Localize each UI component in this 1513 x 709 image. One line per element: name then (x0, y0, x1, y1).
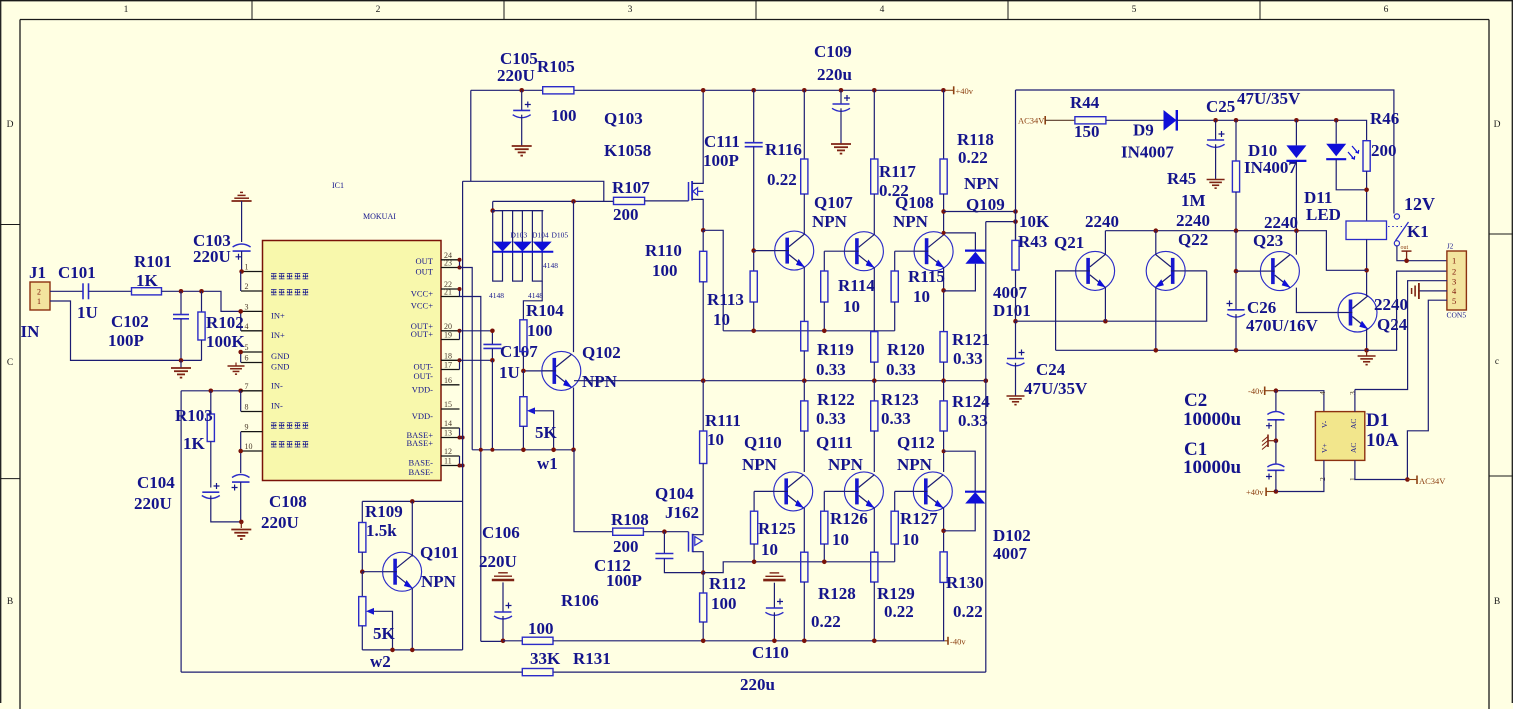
junction D10 Q23 collector (1294, 228, 1299, 233)
resistor R124 (943, 381, 945, 401)
svg-text:17: 17 (444, 361, 452, 370)
svg-text:4: 4 (245, 322, 249, 331)
bridge D1 body (1315, 412, 1364, 461)
resistor R127 (891, 511, 898, 544)
wire diode rail corner (492, 201, 494, 210)
diode D9 (1164, 110, 1177, 131)
svg-text:21: 21 (444, 288, 452, 297)
svg-text:C: C (7, 358, 13, 368)
w1 wiper arrow (527, 407, 535, 414)
wire R118 rail drop (943, 90, 945, 159)
svg-text:J2: J2 (1447, 243, 1454, 251)
svg-text:+40v: +40v (1246, 487, 1264, 497)
wire Q111 base (824, 490, 844, 492)
junction C109 rail (839, 88, 844, 93)
resistor R130 (940, 552, 947, 583)
svg-text:5: 5 (245, 343, 249, 352)
svg-text:VDD-: VDD- (412, 385, 433, 395)
wire C101 to R101 (89, 290, 132, 292)
svg-text:c: c (1495, 357, 1499, 367)
svg-text:R108: R108 (611, 510, 649, 529)
svg-text:Q103: Q103 (604, 109, 643, 128)
IC1 right pin 22 (441, 288, 460, 290)
transistor Q108 (844, 232, 883, 271)
junction w1 bus C107line (490, 448, 494, 452)
wire Q23 emitter to Q24 base (1296, 288, 1338, 313)
IC1 right pin 19 (441, 339, 460, 341)
IC1 pin label dianyuan- 9 (271, 423, 277, 428)
svg-text:C25: C25 (1206, 97, 1235, 116)
junction input ground (179, 358, 184, 363)
svg-text:19: 19 (444, 331, 452, 340)
svg-text:13: 13 (444, 429, 452, 438)
junction R112 top (701, 570, 706, 575)
wire Q21 base (1056, 271, 1076, 350)
svg-text:C2: C2 (1184, 390, 1207, 411)
svg-text:AC: AC (1349, 443, 1358, 453)
svg-text:9: 9 (245, 423, 249, 432)
IC1 right pin 18 (441, 359, 460, 361)
svg-text:0.22: 0.22 (958, 148, 988, 167)
svg-text:+40v: +40v (956, 86, 974, 96)
svg-text:18: 18 (444, 351, 452, 360)
wire Q23 base link (1236, 270, 1260, 272)
wire R108 feed (574, 450, 613, 532)
svg-text:D: D (1494, 120, 1501, 130)
svg-text:5K: 5K (535, 423, 558, 442)
svg-text:100: 100 (551, 106, 577, 125)
svg-text:R101: R101 (134, 252, 172, 271)
capacitor C111 (753, 90, 755, 142)
junction Q102 base node (521, 369, 526, 374)
wire Q107 emitter to R119 (803, 267, 805, 321)
resistor R116 (801, 159, 808, 194)
svg-text:R127: R127 (900, 509, 938, 528)
junction relay Q24 collector (1364, 268, 1369, 273)
svg-text:C104: C104 (137, 473, 175, 492)
wire V2 bottom corner (481, 640, 503, 642)
IC1 left pin 8 (241, 411, 263, 413)
wire Q107 base (754, 250, 775, 252)
svg-text:23: 23 (444, 259, 452, 268)
svg-text:33K: 33K (530, 649, 561, 668)
capacitor C101 (82, 283, 84, 299)
svg-text:R121: R121 (952, 330, 990, 349)
svg-text:0.22: 0.22 (884, 602, 914, 621)
junction w1 bus V2 (479, 448, 483, 452)
svg-text:C26: C26 (1247, 298, 1276, 317)
resistor R112 (702, 573, 704, 593)
svg-text:D102: D102 (993, 526, 1031, 545)
capacitor C26 (1235, 309, 1237, 311)
svg-text:16: 16 (444, 376, 452, 385)
wire protection box left edge (1015, 90, 1017, 240)
svg-text:Q21: Q21 (1054, 233, 1084, 252)
wire Q108 collector (873, 194, 875, 235)
junction C111 rail (751, 88, 756, 93)
svg-text:D101: D101 (993, 301, 1031, 320)
resistor R102 (201, 291, 203, 312)
wire bracket pins20-19 OUT+ (459, 331, 461, 340)
junction R128 bus (802, 639, 807, 644)
diode D105 (532, 211, 542, 282)
junction w1 bus pot (521, 448, 526, 453)
svg-text:1K: 1K (136, 271, 159, 290)
svg-text:1M: 1M (1181, 191, 1206, 210)
svg-text:10: 10 (902, 530, 919, 549)
junction BASE+ (461, 436, 465, 440)
junction Q102 collector (571, 199, 576, 204)
svg-text:B: B (7, 597, 13, 607)
wire Q109 base (895, 250, 914, 252)
svg-text:R112: R112 (709, 574, 746, 593)
IC1 pin label dianyuan- 10 (271, 442, 277, 447)
svg-text:R43: R43 (1018, 232, 1047, 251)
svg-text:4: 4 (880, 5, 885, 15)
svg-text:IN+: IN+ (271, 311, 285, 321)
resistor R128 (801, 552, 808, 582)
svg-text:C102: C102 (111, 312, 149, 331)
svg-text:OUT: OUT (416, 267, 434, 277)
resistor R46 (1363, 141, 1370, 172)
svg-text:CON5: CON5 (1447, 311, 1467, 320)
transistor Q103 MOSFET (688, 182, 690, 201)
svg-text:V-: V- (1320, 420, 1329, 428)
svg-text:2240: 2240 (1264, 213, 1298, 232)
svg-text:Q107: Q107 (814, 193, 853, 212)
wire Q22 collector (1155, 231, 1157, 255)
svg-text:AC: AC (1349, 419, 1358, 429)
svg-text:R113: R113 (707, 290, 744, 309)
junction vbe2 R125 (752, 560, 757, 565)
resistor R119 (801, 321, 808, 351)
junction C107 bottom (490, 358, 495, 363)
svg-text:200: 200 (613, 205, 639, 224)
power AC34V marker right (1416, 476, 1418, 485)
svg-text:12: 12 (444, 447, 452, 456)
junction Q21 emitter node (1103, 319, 1108, 324)
resistor R115 (891, 271, 898, 302)
wire J1 pin1 to ground bus (50, 301, 202, 360)
transistor Q110 (774, 472, 813, 511)
wire R109 top rail (362, 500, 462, 502)
junction D101 top (942, 231, 946, 235)
junction D10 top (1294, 118, 1299, 123)
svg-text:47U/35V: 47U/35V (1237, 89, 1301, 108)
svg-text:220U: 220U (479, 552, 517, 571)
capacitor C25 (1215, 120, 1217, 140)
wire R104 to Q102 base (523, 352, 555, 371)
svg-text:14: 14 (444, 419, 452, 428)
svg-text:OUT-: OUT- (413, 371, 433, 381)
IC1 right pin 12 (441, 455, 460, 457)
wire Q111 emitter (873, 508, 875, 552)
wire Q110 emitter (803, 508, 805, 552)
svg-text:3: 3 (245, 302, 249, 311)
wire Q101 emitter (411, 588, 413, 650)
svg-text:LED: LED (1306, 205, 1341, 224)
svg-text:NPN: NPN (812, 212, 848, 231)
svg-text:2240: 2240 (1176, 211, 1210, 230)
wire C107 line down to w1 bus (491, 360, 493, 450)
junction diode row left (490, 208, 495, 213)
transistor Q24 (1338, 293, 1377, 332)
IC1 right pin 14 (441, 427, 460, 429)
capacitor C105 (521, 90, 523, 110)
transistor Q23 (1260, 252, 1299, 291)
junction vbe R113 (751, 329, 756, 334)
junction AC34V (1405, 477, 1410, 482)
svg-text:IN+: IN+ (271, 330, 285, 340)
wire Q108 base (824, 250, 844, 252)
svg-text:3: 3 (1452, 277, 1456, 287)
svg-text:R115: R115 (908, 267, 945, 286)
junction D11 top (1334, 118, 1339, 123)
svg-text:NPN: NPN (742, 455, 778, 474)
svg-text:100P: 100P (108, 331, 144, 350)
svg-text:R107: R107 (612, 178, 650, 197)
svg-text:IN: IN (21, 322, 41, 341)
svg-text:C110: C110 (752, 643, 789, 662)
svg-text:C106: C106 (482, 523, 520, 542)
transistor Q104 MOSFET (688, 532, 690, 552)
svg-text:R123: R123 (881, 390, 919, 409)
svg-text:R122: R122 (817, 390, 855, 409)
svg-text:R116: R116 (765, 140, 802, 159)
svg-text:R110: R110 (645, 241, 682, 260)
wire R125 bottom (753, 544, 755, 562)
wire feedback left vertical (180, 391, 182, 672)
svg-text:2: 2 (376, 5, 381, 15)
svg-text:V+: V+ (1320, 443, 1329, 453)
wire Q23 base drop (1235, 231, 1237, 310)
svg-text:200: 200 (613, 537, 639, 556)
resistor R123 (873, 381, 875, 401)
junction Q22 collector (1154, 228, 1159, 233)
svg-text:D105: D105 (552, 231, 569, 240)
svg-text:1U: 1U (499, 363, 520, 382)
wire base to Q101 (362, 571, 382, 573)
junction Q23 base (1234, 269, 1239, 274)
junction Q103 drain rail (701, 88, 706, 93)
resistor R44 (1075, 117, 1106, 124)
svg-text:NPN: NPN (828, 455, 864, 474)
svg-text:IN-: IN- (271, 401, 283, 411)
svg-text:w2: w2 (370, 652, 391, 671)
junction C108 ground (239, 520, 244, 525)
resistor R113 (750, 271, 757, 302)
junction C112 top (662, 529, 667, 534)
resistor R111 (702, 381, 704, 431)
svg-text:VDD-: VDD- (412, 411, 433, 421)
wire output bus (574, 380, 986, 382)
wire R46 bottom node (1366, 171, 1368, 221)
junction vbe R114 (822, 329, 827, 334)
wire feedback right vertical (985, 222, 987, 672)
svg-text:0.22: 0.22 (811, 612, 841, 631)
wire Q108 emitter (873, 268, 875, 332)
svg-text:2: 2 (1452, 267, 1456, 277)
svg-text:2: 2 (37, 288, 41, 297)
svg-text:R44: R44 (1070, 93, 1100, 112)
junction R103 top (209, 389, 214, 394)
svg-text:IN4007: IN4007 (1244, 158, 1297, 177)
svg-text:100K: 100K (206, 332, 246, 351)
resistor R120 (873, 331, 875, 333)
wire R115 bottom (894, 302, 896, 331)
svg-text:4148: 4148 (543, 261, 558, 270)
junction pin11 (458, 464, 462, 468)
svg-text:100: 100 (711, 594, 737, 613)
IC1 right pin 21 (441, 296, 460, 298)
wire J2 pin2 to gnd bus (1367, 271, 1447, 350)
svg-text:10: 10 (713, 310, 730, 329)
svg-text:0.22: 0.22 (767, 170, 797, 189)
wire Q109 collector (943, 194, 945, 235)
ground relay circuit (1366, 350, 1368, 356)
junction R43 node321 (1013, 319, 1018, 324)
wire bracket pins1-2 (240, 272, 242, 292)
svg-text:1.5k: 1.5k (366, 521, 397, 540)
resistor R109 (361, 501, 363, 522)
IC1 pin label dianyuan+ 2 (271, 290, 277, 295)
svg-text:10: 10 (843, 297, 860, 316)
svg-text:220U: 220U (261, 513, 299, 532)
resistor R121 (940, 332, 947, 363)
svg-text:R118: R118 (957, 130, 994, 149)
resistor R104 (520, 320, 527, 352)
resistor R106 (522, 637, 553, 644)
wire J2 pin5 to AC (1407, 300, 1447, 479)
svg-text:4007: 4007 (993, 544, 1028, 563)
svg-text:NPN: NPN (897, 455, 933, 474)
IC1 right pin 24 (441, 259, 460, 261)
wire bracket pins22-21 VCC+ (459, 289, 461, 297)
wire Q21 emitter (1104, 287, 1106, 321)
junction C110 bus (772, 639, 777, 644)
power -40v marker bus (947, 637, 949, 645)
IC1 left pin 9 (241, 431, 263, 433)
wire bracket pins7-8 (240, 391, 242, 412)
junction pin18 (458, 358, 462, 362)
wire OUT pins to w1 bus (460, 268, 473, 450)
junction w1 bus emitter (571, 448, 576, 453)
svg-text:12V: 12V (1404, 194, 1435, 214)
resistor R126 (821, 511, 828, 544)
junction w1 bus wiper (551, 448, 556, 453)
IC1 right pin 16 (441, 384, 460, 386)
wire collector line y231 (1105, 231, 1366, 271)
wire Q102 collector vertical (573, 201, 575, 352)
potentiometer w1 5K (522, 371, 524, 397)
IC1 left pin 4 (241, 330, 263, 332)
svg-text:0.33: 0.33 (953, 349, 983, 368)
wire bridge pin3 up (1354, 390, 1356, 412)
connector J2 (1447, 251, 1467, 310)
wire Q22 base (1186, 270, 1207, 272)
svg-text:C101: C101 (58, 263, 96, 282)
svg-text:R109: R109 (365, 502, 403, 521)
transistor Q111 (844, 472, 883, 511)
op-amp module IC1 body (263, 241, 442, 481)
capacitor C108 (240, 451, 242, 473)
svg-text:R106: R106 (561, 591, 599, 610)
svg-text:100: 100 (528, 619, 554, 638)
svg-text:-40v: -40v (950, 637, 966, 647)
junction Q109 emitter D101 (941, 288, 946, 293)
svg-text:R104: R104 (526, 301, 564, 320)
svg-text:AC34V: AC34V (1419, 476, 1446, 486)
IC1 right pin 13 (441, 437, 460, 439)
junction C25 (1213, 118, 1218, 123)
svg-text:GND: GND (271, 361, 289, 371)
node input dot at C102 (179, 289, 184, 294)
svg-text:2240: 2240 (1085, 212, 1119, 231)
svg-text:6: 6 (1384, 5, 1389, 15)
junction bus feedback (984, 378, 989, 383)
svg-text:2: 2 (245, 282, 249, 291)
svg-text:10: 10 (245, 442, 253, 451)
wire Q109 emitter (943, 268, 945, 332)
IC1 left pin 7 (241, 390, 263, 392)
junction R116 rail (802, 88, 807, 93)
svg-text:Q101: Q101 (420, 543, 459, 562)
potentiometer w2 5K (361, 572, 363, 597)
wire switch to J2 pin1 (1397, 246, 1447, 261)
wire BASE+ to vertical (460, 437, 463, 439)
svg-text:VCC+: VCC+ (411, 300, 433, 310)
svg-text:R102: R102 (206, 313, 244, 332)
wire R127 bottom (894, 544, 896, 562)
junction bus R120 (872, 378, 877, 383)
junction pin5 (238, 350, 243, 355)
svg-text:100: 100 (652, 261, 678, 280)
ground C104/C108 (240, 522, 242, 528)
wire Q112 emitter (943, 508, 945, 552)
junction C1 bottom (1274, 489, 1279, 494)
wire R117 rail drop (873, 90, 875, 159)
junction out port (1404, 258, 1409, 263)
wire OUT+ to C107 line (460, 330, 493, 332)
wire VAS horizontal (493, 200, 614, 202)
svg-text:4: 4 (1318, 391, 1327, 395)
svg-text:R125: R125 (758, 519, 796, 538)
wire gnd bus y350 (1056, 349, 1367, 351)
wire bracket pins5-6 (240, 352, 242, 363)
sheet border frame (0, 0, 1513, 2)
junction R129 bus (872, 639, 877, 644)
junction bus R121 (941, 378, 946, 383)
svg-text:3: 3 (628, 5, 633, 15)
wire bracket pins18-17 OUT- (459, 360, 461, 369)
junction R112 bus (701, 639, 706, 644)
capacitor C109 (840, 90, 842, 104)
svg-text:Q102: Q102 (582, 343, 621, 362)
wire node321 (1016, 271, 1207, 321)
wire source jog to vbe line (703, 230, 723, 330)
junction vbe2 R126 (822, 560, 827, 565)
svg-text:D104: D104 (532, 231, 549, 240)
junction rail end (941, 88, 946, 93)
svg-text:1: 1 (245, 263, 249, 272)
svg-text:R114: R114 (838, 276, 875, 295)
svg-text:R126: R126 (830, 509, 868, 528)
IC1 right pin 17 (441, 369, 460, 371)
svg-text:VCC+: VCC+ (411, 288, 433, 298)
svg-text:R120: R120 (887, 340, 925, 359)
junction Q101 collector top (410, 499, 415, 504)
power +40v marker (953, 86, 955, 94)
